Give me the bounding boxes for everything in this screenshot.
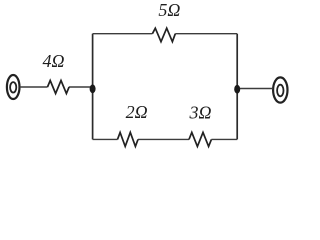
- svg-text:5Ω: 5Ω: [158, 0, 180, 20]
- svg-text:2Ω: 2Ω: [126, 102, 148, 122]
- svg-text:3Ω: 3Ω: [188, 103, 211, 123]
- svg-text:4Ω: 4Ω: [42, 51, 64, 71]
